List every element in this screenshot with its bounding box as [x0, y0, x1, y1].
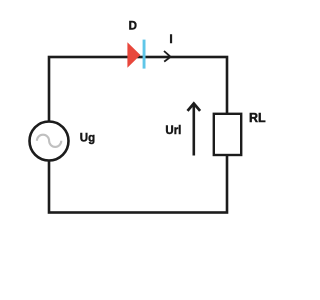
- svg-text:Ug: Ug: [80, 132, 95, 144]
- svg-text:Url: Url: [165, 125, 181, 137]
- svg-text:RL: RL: [249, 111, 266, 125]
- svg-text:D: D: [129, 21, 137, 33]
- svg-text:I: I: [169, 32, 172, 46]
